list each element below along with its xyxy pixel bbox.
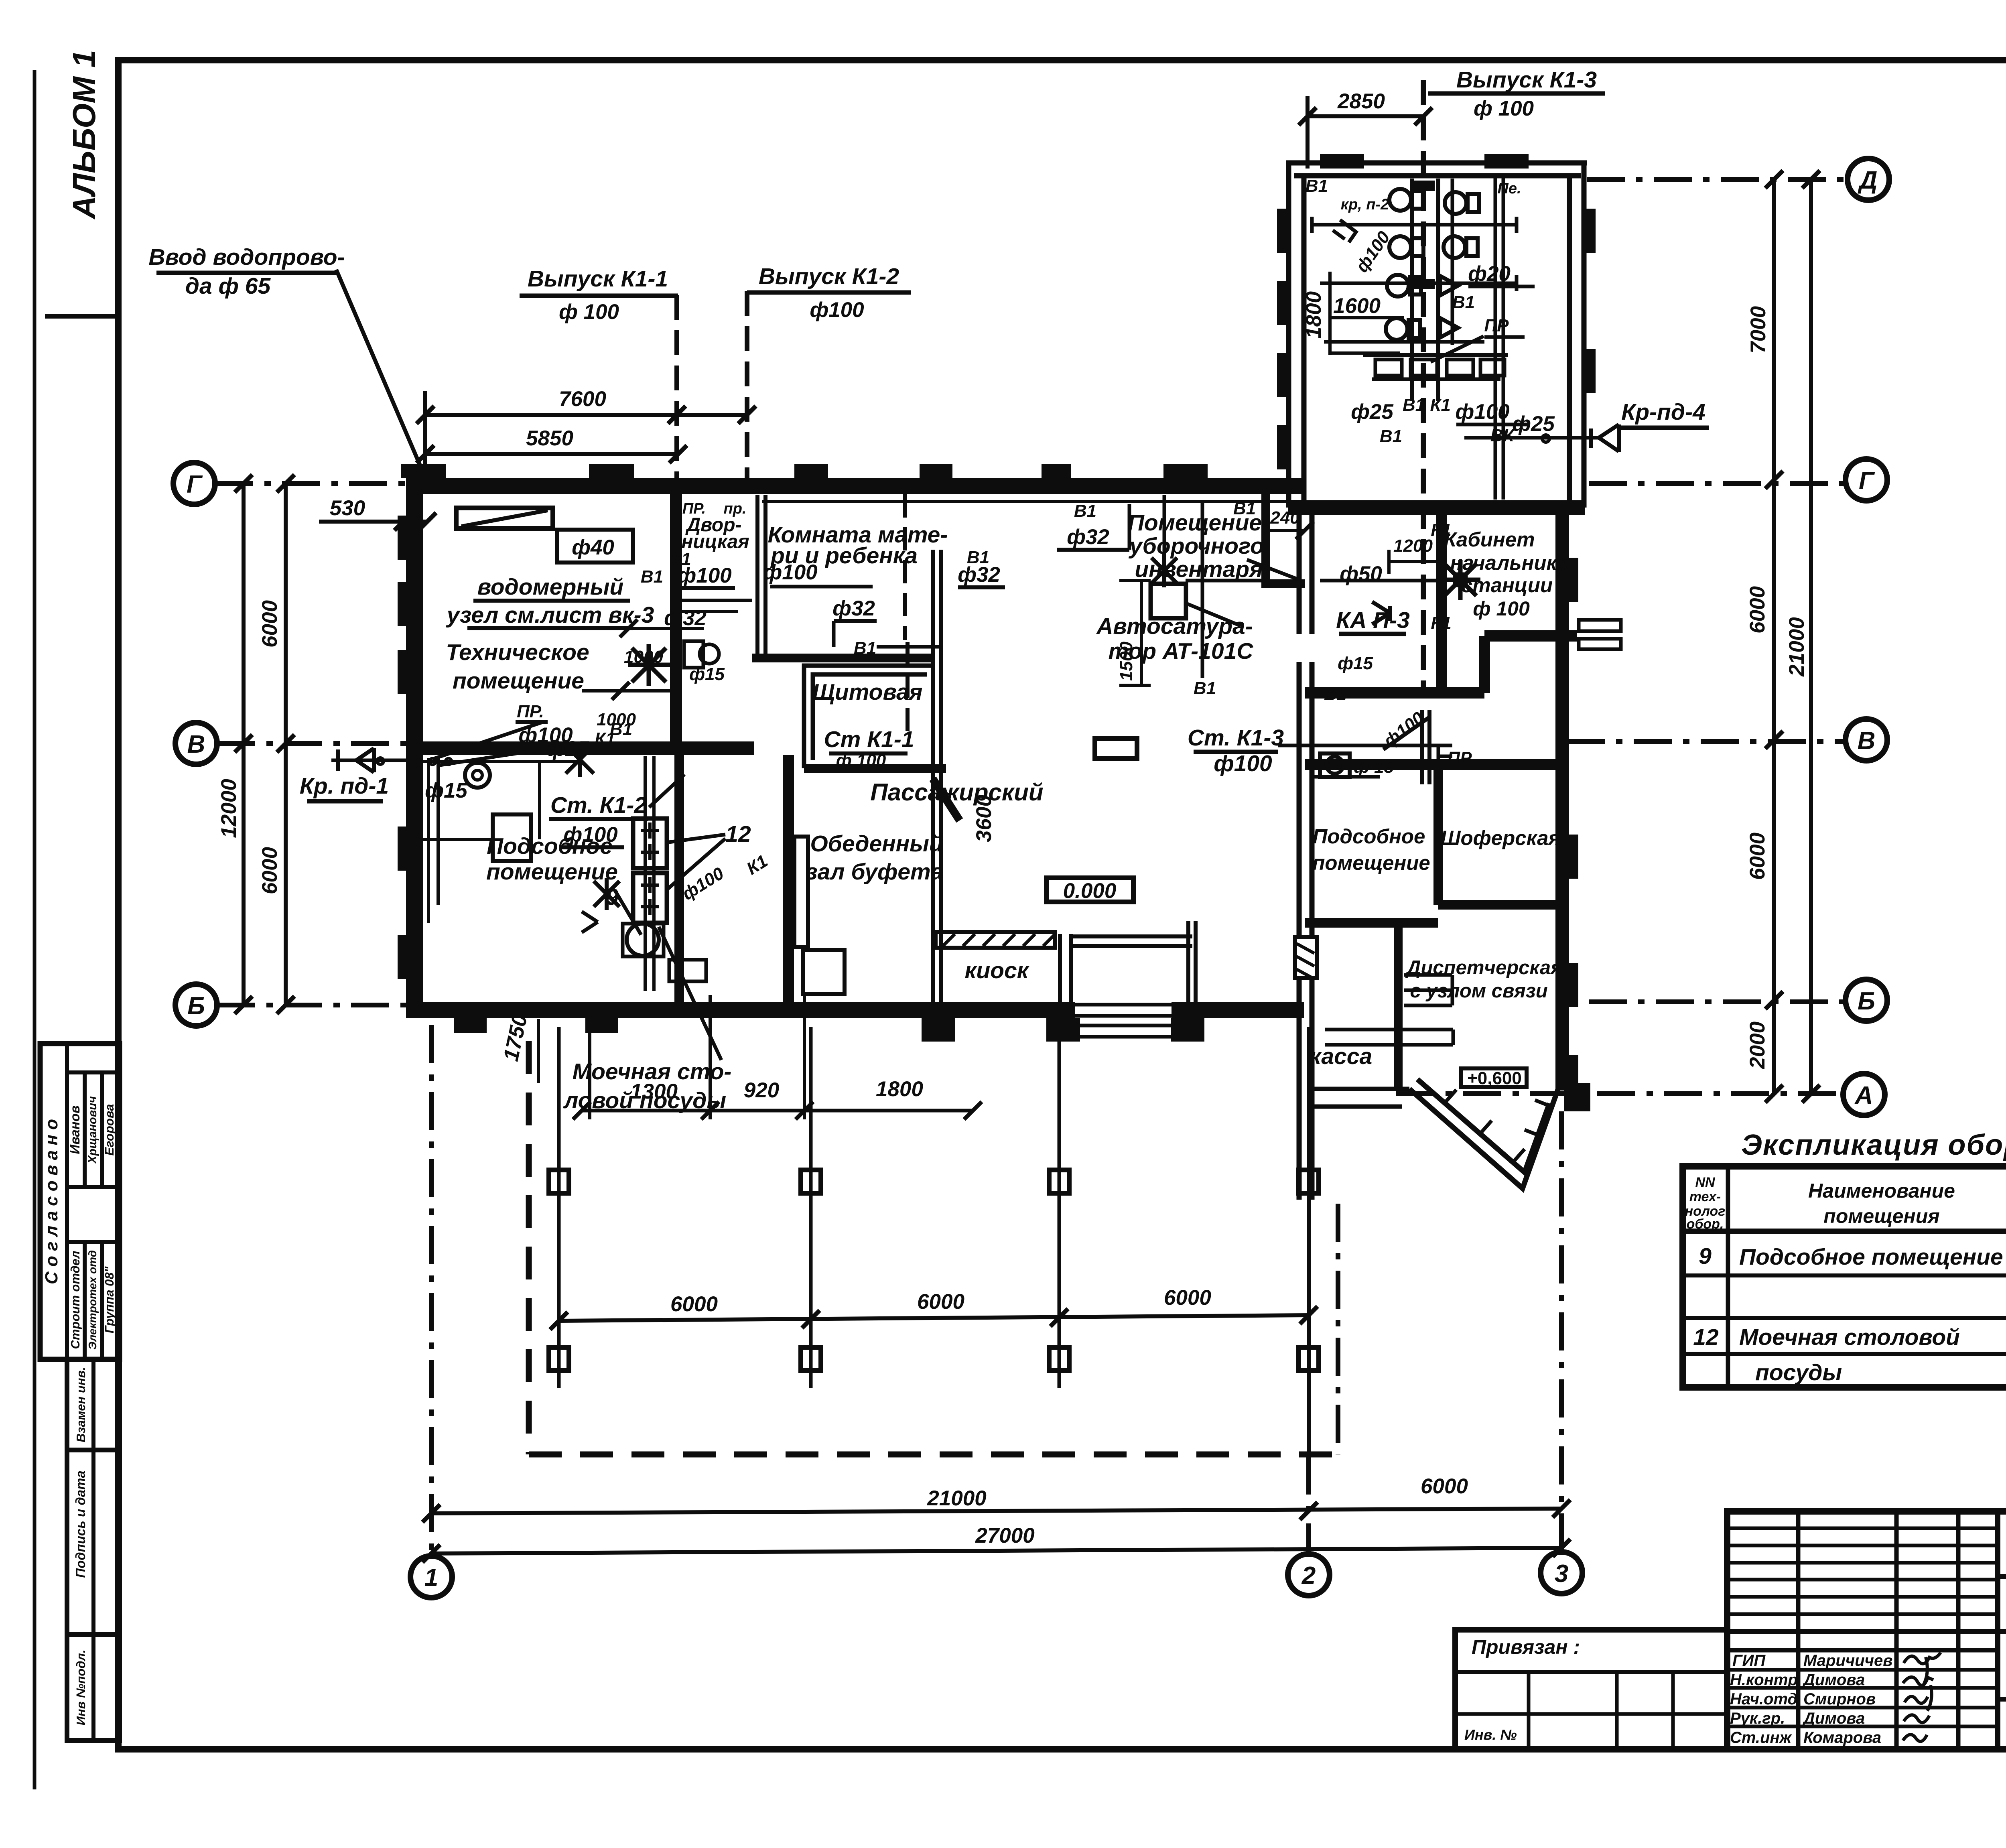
svg-text:21000: 21000	[927, 1487, 986, 1510]
svg-text:водомерный: водомерный	[477, 574, 624, 600]
svg-text:В1: В1	[854, 638, 876, 658]
svg-text:ВК: ВК	[1490, 426, 1515, 445]
svg-text:1000: 1000	[624, 647, 663, 667]
svg-text:да ф 65: да ф 65	[185, 273, 271, 299]
K1-2 shaft double lines	[755, 495, 759, 662]
wing cold water riser	[1451, 179, 1454, 345]
right dim lines	[1772, 179, 1776, 1094]
svg-text:1800: 1800	[876, 1077, 923, 1101]
svg-text:ф25: ф25	[1512, 412, 1555, 436]
svg-text:ПР: ПР	[1484, 316, 1509, 335]
north wall pilasters	[401, 464, 1208, 478]
svg-text:ф15: ф15	[1338, 654, 1373, 673]
svg-text:3: 3	[1555, 1560, 1568, 1588]
1500 dim vertical	[1140, 582, 1143, 686]
privyazan annex	[1455, 1630, 1727, 1749]
KA P-3 valve star	[1440, 560, 1480, 600]
1800 dim line	[1328, 272, 1332, 355]
shchitovaya stack	[906, 642, 910, 740]
tap f50	[1372, 602, 1390, 624]
svg-text:12: 12	[1693, 1324, 1719, 1350]
toilet bowls	[1386, 189, 1479, 340]
svg-text:Маричичев: Маричичев	[1803, 1652, 1892, 1669]
partition tech room / dvornitskaya	[670, 494, 682, 741]
canopy column dim 6000x3	[559, 1315, 1309, 1321]
stamp lower boxes	[67, 1359, 120, 1450]
svg-text:Б: Б	[187, 992, 205, 1020]
leader autosaturator	[1184, 603, 1241, 626]
lavatory counter	[1363, 353, 1508, 357]
1200 dim	[1389, 560, 1440, 563]
signature rows	[1730, 1652, 1892, 1746]
svg-text:Б: Б	[1858, 987, 1875, 1015]
partition podsobnoe2 / shoferskaya	[1433, 764, 1443, 905]
wing pilasters	[1277, 154, 1596, 469]
svg-text:ф 100: ф 100	[836, 751, 886, 770]
svg-text:В: В	[187, 731, 205, 758]
svg-text:В1: В1	[1194, 678, 1216, 698]
svg-text:В1 К1: В1 К1	[1403, 395, 1451, 415]
svg-text:Димова: Димова	[1802, 1710, 1865, 1727]
svg-text:К1: К1	[1431, 613, 1452, 633]
stack valve bars	[1412, 181, 1435, 289]
B1 riser by closet	[1201, 502, 1204, 678]
st K1-3 pipe	[1278, 744, 1452, 747]
axis B line	[217, 1003, 407, 1007]
1000 dim a	[590, 627, 704, 630]
level mark 0.000 box	[1046, 878, 1133, 902]
wing pipe 3	[1324, 340, 1484, 344]
mother room east wall double	[931, 550, 935, 1003]
svg-text:Пе.: Пе.	[1497, 180, 1521, 197]
svg-text:ф25: ф25	[546, 737, 589, 761]
leader PR left	[432, 722, 558, 766]
svg-text:Нач.отд: Нач.отд	[1730, 1690, 1797, 1708]
svg-text:7000: 7000	[1746, 306, 1770, 353]
toilet wing west wall	[1286, 163, 1291, 508]
axis V line	[217, 741, 407, 746]
svg-text:Автосатура-: Автосатура-	[1096, 613, 1253, 639]
svg-text:ф32: ф32	[1067, 525, 1109, 549]
stamp names subgrid	[67, 1070, 120, 1074]
svg-text:ф100: ф100	[677, 564, 731, 587]
title block outer	[1727, 1511, 2006, 1749]
1750 dim vertical	[537, 1019, 540, 1083]
washbasin kassa area	[1320, 753, 1350, 777]
svg-text:ф 100: ф 100	[1474, 97, 1534, 120]
svg-text:6000: 6000	[1746, 833, 1769, 880]
west wall pilasters	[398, 516, 407, 979]
svg-text:Иванов: Иванов	[67, 1105, 82, 1154]
svg-text:Ст К1-1: Ст К1-1	[824, 727, 914, 752]
svg-text:6000: 6000	[258, 600, 282, 648]
svg-text:с узлом связи: с узлом связи	[1410, 980, 1547, 1002]
svg-text:Диспетчерская: Диспетчерская	[1405, 957, 1562, 979]
svg-text:Г: Г	[187, 471, 203, 498]
240 dim	[1265, 529, 1306, 532]
svg-text:помещение: помещение	[453, 668, 584, 694]
svg-text:Выпуск К1-3: Выпуск К1-3	[1456, 67, 1597, 93]
svg-text:+0,600: +0,600	[1467, 1068, 1522, 1088]
svg-text:Егорова: Егорова	[102, 1104, 116, 1156]
KA P-3 pipe	[1320, 579, 1441, 583]
wing east wall	[1555, 515, 1569, 1091]
dvornitskaya sink	[684, 641, 703, 668]
svg-text:Подсобное помещение: Подсобное помещение	[1739, 1244, 2003, 1270]
svg-text:Моечная столовой: Моечная столовой	[1739, 1324, 1960, 1350]
svg-text:Кр-пд-4: Кр-пд-4	[1621, 399, 1706, 425]
svg-text:Техническое: Техническое	[446, 640, 589, 665]
boiler 9	[623, 924, 664, 956]
svg-text:Инв. №: Инв. №	[1464, 1726, 1517, 1743]
svg-text:С о г л а с о в а н о: С о г л а с о в а н о	[42, 1119, 61, 1284]
K1-2 channel lines	[644, 756, 647, 991]
svg-text:ф32: ф32	[832, 597, 875, 620]
svg-text:ф100: ф100	[763, 560, 817, 584]
svg-text:0.000: 0.000	[1063, 879, 1117, 903]
svg-text:1300: 1300	[630, 1080, 678, 1103]
svg-text:ф20: ф20	[1468, 262, 1511, 286]
axis 1 line	[429, 1025, 434, 1555]
svg-text:Наименование: Наименование	[1808, 1180, 1955, 1202]
podsobnoe2 south wall	[1305, 918, 1438, 928]
top dim 5850	[425, 452, 678, 456]
svg-text:Строит отдел: Строит отдел	[68, 1251, 82, 1349]
svg-text:ф32: ф32	[958, 563, 1000, 587]
svg-text:ф32: ф32	[664, 606, 707, 630]
svg-text:Ст. К1-3: Ст. К1-3	[1188, 725, 1284, 751]
kabinet south step	[1479, 636, 1490, 693]
svg-text:Инв №подл.: Инв №подл.	[74, 1650, 88, 1726]
canopy dashed edge bottom	[529, 1452, 1338, 1458]
left stamp column box	[40, 1044, 120, 1359]
shoferskaya north wall	[1305, 759, 1559, 770]
main west wall	[406, 478, 423, 1018]
svg-text:1200: 1200	[1393, 536, 1433, 556]
sheet left edge	[33, 70, 37, 1789]
svg-text:помещения: помещения	[1823, 1205, 1939, 1227]
axis G circle right	[1846, 459, 1887, 501]
svg-text:А: А	[1854, 1082, 1873, 1109]
svg-text:1500: 1500	[1117, 642, 1136, 681]
svg-text:ницкая: ницкая	[681, 531, 749, 552]
svg-text:Г: Г	[1859, 467, 1875, 495]
svg-text:АЛЬБОМ 1: АЛЬБОМ 1	[66, 50, 102, 220]
svg-text:920: 920	[744, 1078, 779, 1102]
buffet counter 2	[803, 950, 845, 994]
buffet counter 1	[794, 837, 808, 947]
left riser pipes	[427, 758, 430, 923]
svg-text:ф100: ф100	[810, 298, 864, 322]
leader st K1-2	[649, 774, 684, 807]
left valve star	[566, 742, 594, 777]
hose tap kr-pd-4	[1464, 436, 1599, 440]
drain pan	[669, 960, 706, 981]
leader uborochny	[1247, 560, 1297, 579]
PR drain tick	[1438, 747, 1452, 766]
stairs	[1404, 975, 1452, 1005]
svg-text:Комарова: Комарова	[1803, 1729, 1881, 1746]
partition kassa / dispetcherskaya	[1394, 923, 1403, 1089]
kabinet south wall	[1484, 630, 1577, 642]
toilet wing north wall	[1286, 160, 1587, 166]
svg-text:27000: 27000	[975, 1524, 1034, 1547]
svg-text:ф 100: ф 100	[559, 300, 619, 324]
svg-text:6000: 6000	[670, 1292, 718, 1316]
pipe to KA	[1186, 579, 1266, 583]
svg-text:Подпись и дата: Подпись и дата	[73, 1470, 88, 1578]
svg-text:Щитовая: Щитовая	[812, 679, 923, 705]
svg-text:уборочного: уборочного	[1128, 533, 1264, 559]
svg-text:обор.: обор.	[1687, 1216, 1724, 1232]
svg-text:ф100: ф100	[1214, 751, 1272, 776]
svg-text:2: 2	[1301, 1562, 1316, 1590]
kassa south wall double	[1312, 1087, 1409, 1091]
urinals	[1440, 276, 1458, 337]
right header rows	[1998, 1574, 2006, 1579]
canopy dashed edge right	[1336, 1204, 1340, 1454]
svg-text:Пассажирский: Пассажирский	[870, 779, 1043, 806]
svg-text:Ст.инж: Ст.инж	[1730, 1729, 1793, 1746]
svg-text:6000: 6000	[1421, 1474, 1468, 1498]
cleaning closet walls	[1261, 494, 1270, 588]
leader 9	[615, 890, 641, 935]
svg-text:Рук.гр.: Рук.гр.	[1730, 1710, 1785, 1727]
svg-text:Димова: Димова	[1802, 1671, 1865, 1689]
signature squiggles	[1903, 1653, 1941, 1741]
svg-text:530: 530	[330, 496, 365, 520]
right wing north wall	[1288, 500, 1585, 515]
svg-text:1800: 1800	[1302, 291, 1326, 339]
leader moechnaya	[659, 927, 721, 1060]
shoferskaya south wall	[1438, 900, 1559, 910]
south wall pilasters	[454, 1018, 1204, 1042]
svg-text:помещение: помещение	[1312, 851, 1430, 874]
hall east wall	[1297, 504, 1302, 634]
wing pipe 1	[1312, 223, 1517, 227]
main south wall (axis B)	[406, 1002, 1075, 1018]
dvornitskaya pipes	[681, 599, 752, 602]
svg-text:Электротех отд: Электротех отд	[86, 1250, 99, 1350]
canopy columns row 1	[549, 1170, 1319, 1193]
svg-text:Ввод водопрово-: Ввод водопрово-	[148, 244, 345, 270]
kiosk counter lines	[1071, 934, 1192, 938]
svg-text:6000: 6000	[258, 847, 282, 894]
svg-text:Помещение: Помещение	[1128, 510, 1262, 536]
svg-text:1: 1	[424, 1564, 438, 1592]
svg-text:ГИП: ГИП	[1732, 1652, 1766, 1669]
hall door leaf	[933, 779, 960, 820]
east entrance steps	[1579, 620, 1621, 649]
leader vvod vodoprovoda	[336, 270, 425, 477]
revision grid rows	[1727, 1528, 1998, 1614]
svg-text:Экспликация оборудования буф: Экспликация оборудования буфета	[1741, 1129, 2006, 1161]
svg-text:1600: 1600	[1333, 294, 1381, 318]
canopy columns row 2	[549, 1347, 1319, 1371]
svg-text:Выпуск К1-2: Выпуск К1-2	[759, 264, 899, 289]
svg-text:ф40: ф40	[572, 536, 614, 559]
svg-text:Кр. пд-1: Кр. пд-1	[300, 773, 389, 799]
svg-text:помещение: помещение	[486, 859, 618, 885]
svg-text:5850: 5850	[526, 426, 573, 450]
svg-text:В1: В1	[1074, 501, 1096, 521]
small hall rectangle	[1095, 739, 1137, 759]
bottom dim line 27000	[431, 1548, 1561, 1554]
svg-text:Кабинет: Кабинет	[1444, 528, 1535, 551]
svg-text:Взамен инв.: Взамен инв.	[74, 1367, 88, 1442]
autosaturator device	[1151, 584, 1186, 618]
axis 3 line	[1559, 1111, 1564, 1551]
album divider	[45, 314, 118, 319]
entrance steps	[1061, 1024, 1186, 1028]
svg-text:ПР.: ПР.	[517, 702, 544, 721]
axis V interior wall	[406, 741, 754, 755]
K1-2 stack dash	[745, 291, 749, 478]
svg-text:посуды: посуды	[1755, 1360, 1842, 1385]
axis A line	[1396, 1091, 1842, 1096]
wing stack channel	[1410, 179, 1414, 401]
main north wall (axis G)	[406, 478, 1304, 494]
svg-text:Подсобное: Подсобное	[487, 833, 613, 859]
bottom dim line 21000	[431, 1509, 1561, 1513]
svg-text:тех-: тех-	[1689, 1189, 1721, 1204]
svg-text:киоск: киоск	[964, 958, 1029, 983]
svg-text:9: 9	[1699, 1243, 1712, 1269]
K1-1 stack dash	[674, 295, 679, 479]
svg-text:В: В	[1858, 727, 1876, 755]
svg-text:ф 100: ф 100	[1473, 597, 1530, 620]
washing bath 12b	[633, 873, 667, 923]
svg-text:станции: станции	[1461, 574, 1553, 597]
svg-text:Шоферская: Шоферская	[1441, 827, 1561, 849]
f100 diagonal pipe	[1383, 717, 1430, 749]
svg-text:6000: 6000	[1164, 1286, 1211, 1310]
svg-text:Ст. К1-2: Ст. К1-2	[550, 792, 647, 818]
svg-text:кр, п-2: кр, п-2	[1341, 196, 1389, 213]
1600 dim lines	[1330, 316, 1404, 319]
wing pipe 2	[1320, 282, 1517, 285]
bay window walls	[1409, 1089, 1558, 1188]
svg-text:6000: 6000	[1746, 586, 1769, 634]
tap at bath	[582, 912, 598, 932]
hose tap kr-pd-1	[331, 759, 406, 762]
junction star small	[594, 878, 619, 910]
axis V circle right	[1846, 719, 1887, 761]
svg-text:NN: NN	[1695, 1175, 1716, 1190]
left dim lines	[242, 483, 246, 1005]
svg-text:Привязан :: Привязан :	[1472, 1636, 1580, 1658]
svg-text:касса: касса	[1310, 1044, 1372, 1069]
svg-text:ф15: ф15	[425, 779, 468, 802]
svg-text:Хрщанович: Хрщанович	[86, 1096, 99, 1164]
axis V circle left	[175, 723, 217, 764]
1000 dim b	[582, 689, 682, 692]
water meter unit	[456, 508, 553, 528]
svg-text:Д: Д	[1858, 167, 1878, 194]
title block verticals	[1796, 1511, 1801, 1749]
svg-text:Обеденный: Обеденный	[810, 831, 943, 857]
svg-text:КА П-3: КА П-3	[1336, 607, 1410, 633]
svg-text:Смирнов: Смирнов	[1803, 1690, 1876, 1708]
dim 530	[319, 520, 427, 524]
svg-text:Подсобное: Подсобное	[1313, 825, 1425, 848]
shelf	[1325, 1030, 1453, 1045]
left tank	[493, 814, 531, 861]
left pump	[465, 763, 490, 788]
canopy dashed edge left	[526, 1041, 532, 1454]
equipment table frame	[1683, 1166, 2006, 1387]
corridor south wall	[1305, 687, 1484, 699]
washing bath 12a	[633, 818, 667, 868]
svg-text:7600: 7600	[559, 387, 606, 411]
axis G circle left	[173, 463, 215, 504]
svg-text:21000: 21000	[1785, 617, 1809, 676]
kabinet west wall	[1436, 515, 1447, 693]
svg-text:К1: К1	[743, 851, 771, 879]
svg-text:В1: В1	[1452, 292, 1475, 312]
svg-text:Н.контр: Н.контр	[1730, 1671, 1798, 1689]
svg-text:инвентаря: инвентаря	[1135, 556, 1263, 582]
axis G line	[215, 481, 407, 486]
svg-text:узел см.лист вк-3: узел см.лист вк-3	[446, 602, 654, 628]
svg-text:ПР: ПР	[1448, 748, 1472, 768]
svg-text:2850: 2850	[1337, 89, 1385, 113]
bottom dims 1300/920/1800	[582, 1109, 973, 1113]
svg-text:начальника: начальника	[1450, 551, 1569, 574]
svg-text:9: 9	[606, 884, 619, 910]
kiosk hatched wall	[936, 932, 1055, 948]
svg-text:В1: В1	[1324, 684, 1346, 704]
svg-text:1000: 1000	[597, 710, 636, 729]
svg-text:2000: 2000	[1746, 1021, 1769, 1069]
top dim 7600	[425, 413, 747, 417]
leader 12	[666, 835, 725, 889]
dim 2850	[1308, 114, 1423, 118]
svg-text:ф 15: ф 15	[1354, 757, 1394, 777]
hatched shaft	[1295, 937, 1317, 978]
svg-text:зал буфета: зал буфета	[806, 859, 944, 885]
shchitovaya room walls	[804, 666, 935, 768]
svg-text:В1: В1	[1306, 176, 1328, 196]
leader kr p-2	[1333, 220, 1356, 242]
level mark +0,600 box	[1461, 1068, 1527, 1087]
wall south of mother room	[752, 654, 935, 662]
hall partition stub	[1186, 921, 1190, 1003]
svg-text:ф25: ф25	[1351, 400, 1394, 424]
svg-text:6000: 6000	[917, 1290, 964, 1314]
f40 label box	[557, 530, 633, 563]
svg-text:12000: 12000	[217, 779, 241, 838]
partition podsobnoe / moechnaya	[674, 755, 684, 1002]
kiosk east wall double	[1058, 934, 1062, 1004]
svg-text:ф15: ф15	[689, 664, 725, 684]
svg-text:ф100: ф100	[1352, 227, 1394, 276]
svg-text:240: 240	[1270, 508, 1300, 528]
buffet west wall	[783, 755, 794, 1002]
axis B circle right	[1846, 979, 1887, 1021]
svg-text:ф100: ф100	[1455, 400, 1509, 424]
junction star big	[628, 644, 670, 686]
mother room stack	[903, 494, 907, 640]
svg-text:ф50: ф50	[1340, 562, 1382, 586]
shchitovaya bottom wall	[804, 764, 946, 773]
K1-3 stack below wing	[1420, 710, 1424, 784]
toilet wing east wall	[1567, 176, 1572, 506]
axis B circle left	[175, 984, 217, 1026]
svg-text:12: 12	[725, 821, 751, 847]
svg-text:Выпуск К1-1: Выпуск К1-1	[528, 266, 668, 292]
sewer stack K1-3 dash riser	[1421, 80, 1426, 698]
